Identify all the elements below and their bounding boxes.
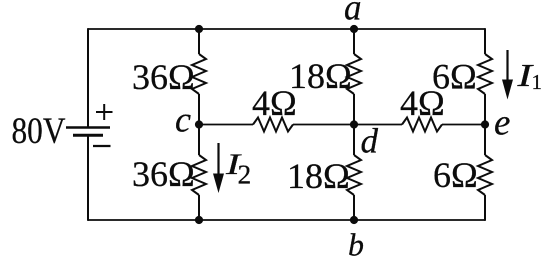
svg-text:c: c (175, 100, 191, 140)
resistor R 18ohm bottom zigzag (347, 155, 361, 195)
wire branch1 top (198, 29, 200, 54)
node junction bottom-left (195, 216, 203, 224)
wire top rail a (88, 28, 485, 30)
wire d to second 4ohm (354, 124, 402, 126)
svg-text:b: b (348, 227, 364, 256)
battery V1 80V short plate (73, 134, 103, 137)
svg-text:2: 2 (238, 159, 252, 190)
wire right branch bottom (484, 195, 486, 221)
svg-text:4Ω: 4Ω (252, 83, 297, 123)
resistor R 6ohm top zigzag (478, 54, 492, 94)
svg-text:4Ω: 4Ω (400, 83, 445, 123)
resistor R 36ohm top zigzag (192, 54, 206, 94)
wire branch1 bottom (198, 195, 200, 220)
svg-text:36Ω: 36Ω (132, 154, 195, 194)
current arrow I2 shaft (217, 143, 219, 177)
wire first 4ohm to d (293, 124, 354, 126)
wire branch2 top (353, 29, 355, 54)
svg-text:36Ω: 36Ω (132, 57, 195, 97)
wire right branch top (484, 28, 486, 54)
resistor R 6ohm bottom zigzag (478, 155, 492, 195)
node junction top-left (195, 25, 203, 33)
current arrow I2 head (213, 174, 224, 194)
wire second 4ohm to e (442, 124, 485, 126)
resistor R 4ohm right zigzag (402, 118, 442, 132)
resistor R 36ohm bottom zigzag (192, 155, 206, 195)
node e junction (481, 120, 489, 128)
node a junction (350, 25, 358, 33)
current arrow I1 head (502, 80, 513, 100)
wire c to first 4ohm (199, 124, 253, 126)
node b junction (350, 216, 358, 224)
wire branch2 bottom (353, 195, 355, 220)
battery V1 80V long plate (66, 126, 110, 128)
svg-text:6Ω: 6Ω (433, 155, 478, 195)
wire branch1 middle (198, 94, 200, 155)
svg-text:18Ω: 18Ω (287, 156, 350, 196)
svg-text:e: e (494, 103, 510, 144)
node d junction (350, 120, 358, 128)
svg-text:80V: 80V (12, 111, 66, 152)
wire left branch lower (87, 135, 89, 221)
svg-text:1: 1 (532, 70, 543, 94)
battery plus sign (96, 104, 113, 120)
wire right branch middle (484, 94, 486, 155)
current arrow I1 shaft (506, 50, 508, 84)
svg-text:18Ω: 18Ω (289, 56, 352, 96)
node c junction (195, 120, 203, 128)
resistor R 4ohm left zigzag (253, 118, 293, 132)
battery minus sign (93, 145, 111, 147)
svg-text:a: a (344, 0, 362, 29)
wire left branch upper (87, 28, 89, 127)
svg-text:d: d (361, 122, 379, 161)
wire branch2 middle (353, 94, 355, 155)
resistor R 18ohm top zigzag (347, 54, 361, 94)
wire bottom rail b (88, 219, 485, 221)
